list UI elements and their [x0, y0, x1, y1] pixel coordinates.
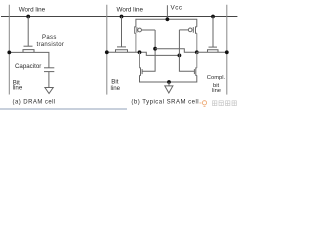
watermark text (CJK) [213, 101, 237, 106]
junction: bit line / node wire [7, 51, 11, 55]
watermark logo icon [200, 101, 207, 107]
junction: compl bit line / node wire [225, 50, 229, 54]
right driver channel [196, 68, 197, 76]
right pMOS gate bar [192, 27, 194, 33]
left driver gate bar [141, 69, 143, 74]
left pMOS load channel [135, 27, 136, 33]
capacitor bottom plate [44, 71, 54, 73]
svg-text:line: line [111, 85, 121, 92]
left driver channel [140, 68, 141, 76]
wire: left access transistor gate lead [121, 17, 123, 47]
wire: left pMOS drain lead [135, 33, 137, 52]
decorative bottom rule [0, 108, 127, 110]
svg-text:(b) Typical SRAM cell: (b) Typical SRAM cell [131, 100, 199, 106]
left access transistor channel bridge [116, 50, 128, 53]
svg-text:Vcc: Vcc [171, 4, 183, 11]
wire: cross-couple vertical (right node to left gates) [142, 30, 155, 71]
svg-text:Word line: Word line [117, 7, 144, 14]
junction: left gate / right-node wire [153, 47, 157, 51]
wire: right access transistor gate lead [212, 17, 214, 48]
right access transistor gate bar [209, 46, 218, 48]
Vcc rail [136, 19, 197, 27]
capacitor top plate [44, 67, 54, 69]
wire: left driver drain lead [139, 52, 141, 68]
bit line (DRAM) [8, 5, 10, 95]
svg-text:transistor: transistor [37, 42, 65, 48]
wire: pass transistor gate lead [27, 17, 29, 47]
svg-text:Word line: Word line [19, 7, 46, 14]
junction: left driver drain on node wire [138, 50, 142, 54]
svg-text:line: line [212, 88, 221, 94]
wire: right node cross wire [155, 49, 197, 53]
junction: left bit line / node wire [105, 50, 109, 54]
junction: pass transistor gate on word line [26, 15, 30, 19]
wire: node wire from bit line to capacitor [9, 52, 49, 67]
right driver gate bar [193, 69, 195, 74]
bit line (SRAM left) [106, 5, 108, 95]
junction: left-node wire / right gate vertical [178, 54, 182, 58]
junction: ground tap [167, 80, 171, 84]
left pMOS inversion bubble [138, 28, 142, 32]
wire: capacitor lower lead [48, 72, 50, 88]
svg-text:Pass: Pass [42, 35, 57, 41]
wire: left driver source lead to ground rail [140, 75, 197, 82]
ground (SRAM) [165, 86, 173, 93]
junction: left access gate on word line [120, 15, 124, 19]
junction: right access gate on word line [211, 15, 215, 19]
pass transistor gate bar [24, 45, 33, 47]
svg-text:Compl.: Compl. [207, 75, 226, 81]
wire: right pMOS drain lead [196, 33, 198, 52]
right access transistor channel bridge [208, 50, 219, 53]
wire: right node to compl bit line [197, 51, 227, 53]
junction: Vcc lead on rail [166, 17, 170, 21]
right pMOS load channel [196, 27, 197, 33]
wire: right pMOS gate lead [179, 29, 188, 31]
word line [1, 16, 237, 18]
wire: left node wire (bit line to cell) [107, 52, 180, 55]
right pMOS inversion bubble [188, 28, 192, 32]
junction: right node [195, 50, 199, 54]
wire: right driver drain lead [196, 52, 198, 68]
svg-text:(a) DRAM cell: (a) DRAM cell [13, 100, 56, 106]
left pMOS gate bar [136, 27, 138, 33]
wire: Vcc lead [166, 5, 168, 19]
wire: ground stem [168, 82, 170, 86]
pass transistor channel bridge [23, 50, 34, 53]
complement bit line (SRAM right) [226, 5, 228, 95]
wire: cross-couple vertical (left node to right gates) [179, 30, 194, 71]
svg-text:line: line [13, 85, 23, 92]
svg-text:Capacitor: Capacitor [15, 63, 41, 70]
wire: left pMOS gate lead to cross-couple [142, 29, 156, 31]
left access transistor gate bar [117, 46, 126, 48]
ground (DRAM) [45, 88, 53, 94]
